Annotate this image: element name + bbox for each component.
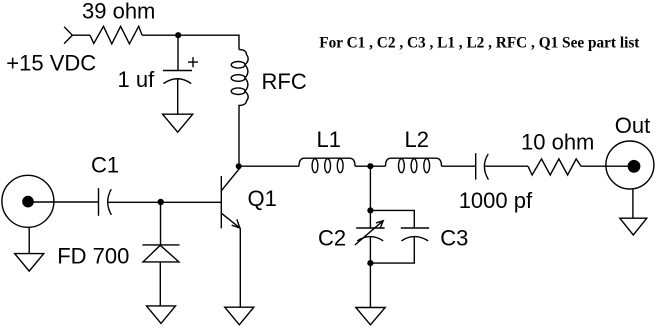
svg-text:For C1 , C2 , C3 , L1 , L2 , R: For C1 , C2 , C3 , L1 , L2 , RFC , Q1 Se… bbox=[319, 35, 640, 52]
svg-text:RFC: RFC bbox=[262, 69, 307, 94]
svg-text:Out: Out bbox=[615, 113, 650, 138]
svg-text:1000 pf: 1000 pf bbox=[459, 188, 533, 213]
svg-text:FD 700: FD 700 bbox=[57, 244, 129, 269]
svg-text:C1: C1 bbox=[91, 153, 119, 178]
svg-text:L1: L1 bbox=[317, 127, 341, 152]
svg-text:L2: L2 bbox=[405, 127, 429, 152]
svg-text:1 uf: 1 uf bbox=[118, 67, 156, 92]
svg-text:C2: C2 bbox=[318, 225, 346, 250]
svg-text:+15 VDC: +15 VDC bbox=[6, 51, 96, 76]
svg-text:C3: C3 bbox=[440, 225, 468, 250]
svg-text:10 ohm: 10 ohm bbox=[521, 130, 594, 155]
svg-text:39 ohm: 39 ohm bbox=[82, 0, 155, 24]
svg-text:Q1: Q1 bbox=[248, 186, 277, 211]
